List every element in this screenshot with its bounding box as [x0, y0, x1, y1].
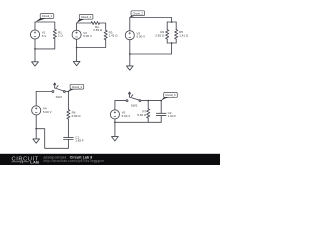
voltage source V2	[72, 30, 81, 39]
wire stub R5 bottom	[175, 39, 177, 43]
svg-text:Circuit_4: Circuit_4	[72, 85, 83, 89]
wire top-left C4	[36, 91, 52, 93]
node C1 bottom	[34, 48, 36, 50]
wire V5 bottom C5	[114, 119, 116, 137]
wire C2 top stub	[160, 101, 162, 114]
switch SW2 terminals	[126, 100, 128, 102]
resistor R1	[53, 29, 56, 38]
node C3 parallel bottom	[171, 42, 173, 44]
resistor R4	[166, 30, 169, 39]
node C5 bottom	[114, 121, 116, 123]
node C4 bottom	[35, 128, 37, 130]
resistor R7	[147, 109, 150, 118]
wire top C1	[35, 22, 55, 29]
switch SW1 terminals	[52, 91, 54, 93]
svg-text:2.83 Ω: 2.83 Ω	[155, 34, 165, 38]
wire bottom C3	[130, 43, 172, 54]
wire left C3	[129, 18, 131, 31]
svg-text:5.00 V: 5.00 V	[43, 110, 52, 114]
ground C4	[33, 139, 40, 143]
wire V2 bottom C2	[76, 39, 78, 61]
svg-text:Circuit_2: Circuit_2	[81, 15, 92, 19]
wire switch to node C4	[65, 91, 68, 93]
flag Circuit_3	[130, 15, 137, 17]
wire right-bottom C1	[35, 39, 55, 49]
svg-text:6.83 Ω: 6.83 Ω	[72, 114, 82, 118]
node C5 mid	[147, 100, 149, 102]
svg-text:1.41 Ω: 1.41 Ω	[179, 34, 189, 38]
svg-text:5.00 V: 5.00 V	[137, 35, 146, 39]
svg-text:2.83 Ω: 2.83 Ω	[93, 28, 103, 32]
wire top-left C5	[115, 100, 126, 102]
wire bottom jog C4	[36, 129, 68, 149]
svg-text:5 V: 5 V	[42, 34, 47, 38]
svg-text:SW1: SW1	[56, 95, 63, 99]
parallel bottom bar C3	[167, 42, 176, 44]
svg-text:LAB: LAB	[30, 160, 39, 165]
svg-text:Circuit_5: Circuit_5	[165, 93, 176, 97]
voltage source V5	[110, 110, 119, 119]
wire stub R5 top	[175, 22, 177, 30]
node C4 flag	[68, 91, 70, 93]
switch SW1 arrow	[54, 83, 58, 88]
voltage source V1	[30, 30, 39, 39]
wire right C4	[67, 92, 69, 110]
wire bottom C5	[115, 121, 161, 123]
svg-text:5.00 V: 5.00 V	[122, 114, 131, 118]
wire C1 bottom stub	[67, 140, 69, 149]
switch SW1 lever	[54, 88, 64, 91]
svg-text:1 Ω: 1 Ω	[58, 34, 64, 38]
wire left C1	[34, 22, 36, 30]
parallel top bar C3	[167, 21, 176, 23]
wire switch to node C5	[141, 100, 148, 102]
logo cap glyph	[21, 160, 23, 163]
wire top-right C2	[100, 23, 106, 30]
resistor R3	[104, 30, 107, 39]
svg-text:5.00 V: 5.00 V	[83, 34, 92, 38]
svg-text:Circuit_1: Circuit_1	[42, 14, 53, 18]
resistor R5	[175, 30, 178, 39]
wire right-bottom C2	[77, 40, 106, 48]
wire R7 top stub	[147, 101, 149, 109]
svg-text:1.41 Ω: 1.41 Ω	[109, 34, 119, 38]
resistor R6	[67, 110, 70, 119]
node C3 top	[171, 21, 173, 23]
logo wire line	[12, 161, 29, 163]
wire V4 bottom C4	[35, 115, 37, 139]
voltage source V4	[32, 106, 41, 115]
svg-text:SW2: SW2	[131, 104, 138, 108]
svg-text:Circuit_3: Circuit_3	[133, 11, 144, 15]
wire stub R4 top	[166, 22, 168, 30]
wire stub R4 bottom	[166, 39, 168, 43]
flag Circuit_1	[35, 18, 46, 22]
wire C2 bottom stub	[160, 115, 162, 122]
svg-text:1.83 F: 1.83 F	[75, 139, 84, 143]
svg-text:http://circuitlab.com/c/p67f4s: http://circuitlab.com/c/p67f4s7wgygcm	[44, 159, 105, 163]
switch SW2 arrow	[128, 92, 133, 97]
capacitor C2	[156, 113, 166, 115]
switch SW2 lever	[129, 97, 139, 100]
ground C5	[112, 137, 119, 141]
wire V3 bottom C3	[129, 40, 131, 66]
wire R7 bottom stub	[147, 118, 149, 122]
flag Circuit_5	[161, 97, 170, 101]
ground C2	[73, 61, 80, 65]
wire left C5	[114, 101, 116, 110]
wire left C4	[35, 92, 37, 106]
wire node to flag node C5	[148, 100, 161, 102]
wire left C2	[76, 23, 78, 30]
voltage source V3	[125, 31, 134, 40]
wire V1 bottom C1	[34, 39, 36, 62]
wire top-left C2	[77, 22, 91, 24]
flag Circuit_2	[77, 19, 86, 23]
wire R6 to C1	[67, 119, 69, 137]
capacitor C1	[64, 137, 74, 139]
ground C1	[32, 62, 39, 66]
ground C3	[126, 66, 133, 70]
svg-text:1.00 F: 1.00 F	[168, 114, 177, 118]
node C5 right	[160, 100, 162, 102]
svg-text:6.83 Ω: 6.83 Ω	[137, 113, 147, 117]
node C2 bottom	[76, 47, 78, 49]
flag Circuit_4	[68, 89, 76, 92]
node C3 bottom	[129, 53, 131, 55]
resistor R2 (horizontal)	[91, 22, 100, 25]
wire top C3	[130, 18, 172, 23]
